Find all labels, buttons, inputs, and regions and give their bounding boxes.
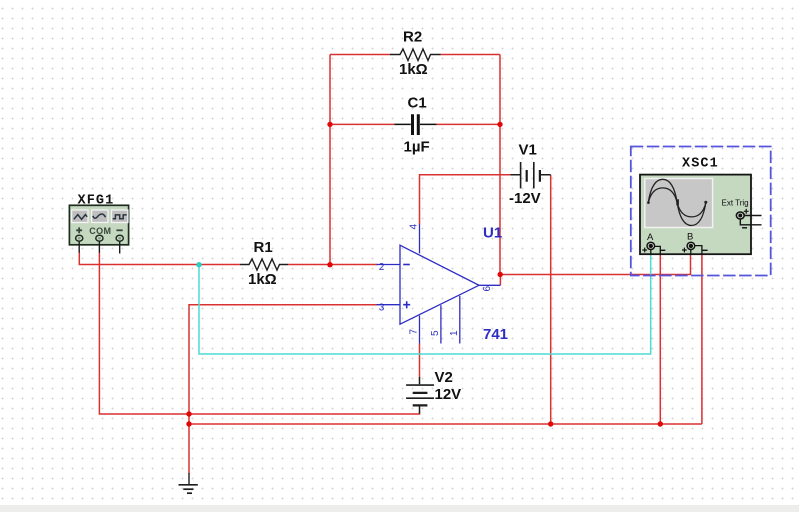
svg-text:6: 6 <box>482 286 493 292</box>
svg-text:1µF: 1µF <box>404 139 430 156</box>
node C1 right junction <box>497 122 502 127</box>
wire R1 right to op-amp pin2 (red) <box>288 264 378 266</box>
node ground upper junction <box>186 411 191 416</box>
svg-text:XSC1: XSC1 <box>682 157 719 172</box>
svg-text:1kΩ: 1kΩ <box>248 271 277 288</box>
wire feedback left branch vertical (red) <box>329 55 331 265</box>
wire input node to scope A plus (cyan) <box>199 254 651 354</box>
wire V1 left terminal to op-amp pin4 (red) <box>420 175 511 225</box>
capacitor C1 <box>394 114 436 135</box>
svg-text:R1: R1 <box>254 239 273 256</box>
svg-text:B: B <box>687 232 693 243</box>
bottom window edge band <box>0 505 799 512</box>
svg-text:741: 741 <box>483 326 508 343</box>
battery V2 <box>406 377 434 414</box>
op-amp U1 741 <box>377 224 501 343</box>
svg-text:2: 2 <box>379 262 385 273</box>
wire scope A minus down to rail (red) <box>659 254 661 424</box>
node output junction <box>498 272 503 277</box>
node C1 left junction <box>327 122 332 127</box>
svg-text:V1: V1 <box>519 142 537 159</box>
svg-text:7: 7 <box>409 329 420 335</box>
svg-text:-12V: -12V <box>509 190 541 207</box>
wire scope B minus down to rail (red) <box>701 254 703 424</box>
wire V1 right terminal down to ground rail (red) <box>550 175 552 424</box>
wire op-amp output to junction and scope B plus (red) <box>500 254 691 285</box>
svg-text:V2: V2 <box>435 369 453 386</box>
svg-text:5: 5 <box>430 330 441 336</box>
node ground rail junction <box>186 421 191 426</box>
oscilloscope XSC1 <box>631 147 771 276</box>
svg-text:12V: 12V <box>435 386 462 403</box>
wire ground branch up to op-amp pin3 (red) <box>189 305 378 414</box>
svg-text:4: 4 <box>408 224 419 230</box>
svg-text:Ext Trig: Ext Trig <box>722 199 749 208</box>
wire feedback right branch vertical (red) <box>499 55 501 275</box>
resistor R1 <box>240 259 288 270</box>
wire ground drop (red) <box>188 414 190 474</box>
node V1 rail junction <box>548 421 553 426</box>
battery V1 <box>510 162 550 188</box>
svg-text:C1: C1 <box>408 95 427 112</box>
node R1 to feedback junction <box>327 262 332 267</box>
node input junction (teal) <box>196 262 201 267</box>
wire top to R2 left (red) <box>330 54 390 56</box>
wire R2 right to right branch (red) <box>441 54 501 56</box>
wire op-amp pin7 to V2 plus (red) <box>419 344 421 378</box>
wire bottom ground rail (red) <box>189 423 702 425</box>
node scope A minus rail junction <box>658 421 663 426</box>
svg-text:COM: COM <box>89 226 111 236</box>
svg-text:1: 1 <box>449 330 460 336</box>
ground <box>179 473 198 493</box>
wire XFG1 plus terminal to R1 (red) <box>79 253 240 265</box>
svg-text:R2: R2 <box>403 29 422 46</box>
svg-text:A: A <box>647 232 654 243</box>
svg-text:U1: U1 <box>483 225 502 242</box>
wire C1 right lead to branch (red) <box>437 123 501 125</box>
resistor R2 <box>390 49 441 61</box>
svg-text:1kΩ: 1kΩ <box>399 61 428 78</box>
wire C1 left lead to branch (red) <box>330 123 394 125</box>
wire XFG1 COM down and right to ground net, up to V2 minus (red) <box>99 253 419 415</box>
svg-text:3: 3 <box>379 302 385 313</box>
